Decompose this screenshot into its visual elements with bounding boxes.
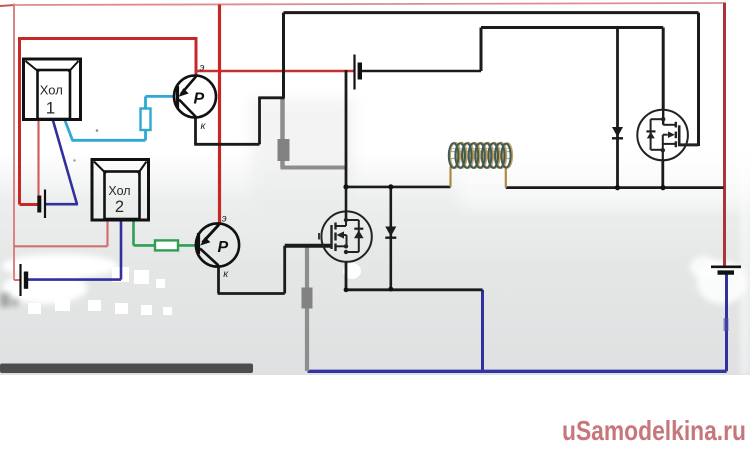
svg-text:э: э: [200, 63, 205, 74]
svg-text:1: 1: [46, 99, 55, 118]
svg-text:Хол: Хол: [40, 83, 63, 98]
svg-text:uSamodelkina.ru: uSamodelkina.ru: [562, 415, 746, 446]
svg-text:P: P: [194, 91, 205, 108]
svg-text:P: P: [218, 239, 229, 256]
svg-text:э: э: [222, 214, 227, 225]
svg-text:Хол: Хол: [108, 184, 130, 198]
svg-text:2: 2: [115, 198, 124, 216]
